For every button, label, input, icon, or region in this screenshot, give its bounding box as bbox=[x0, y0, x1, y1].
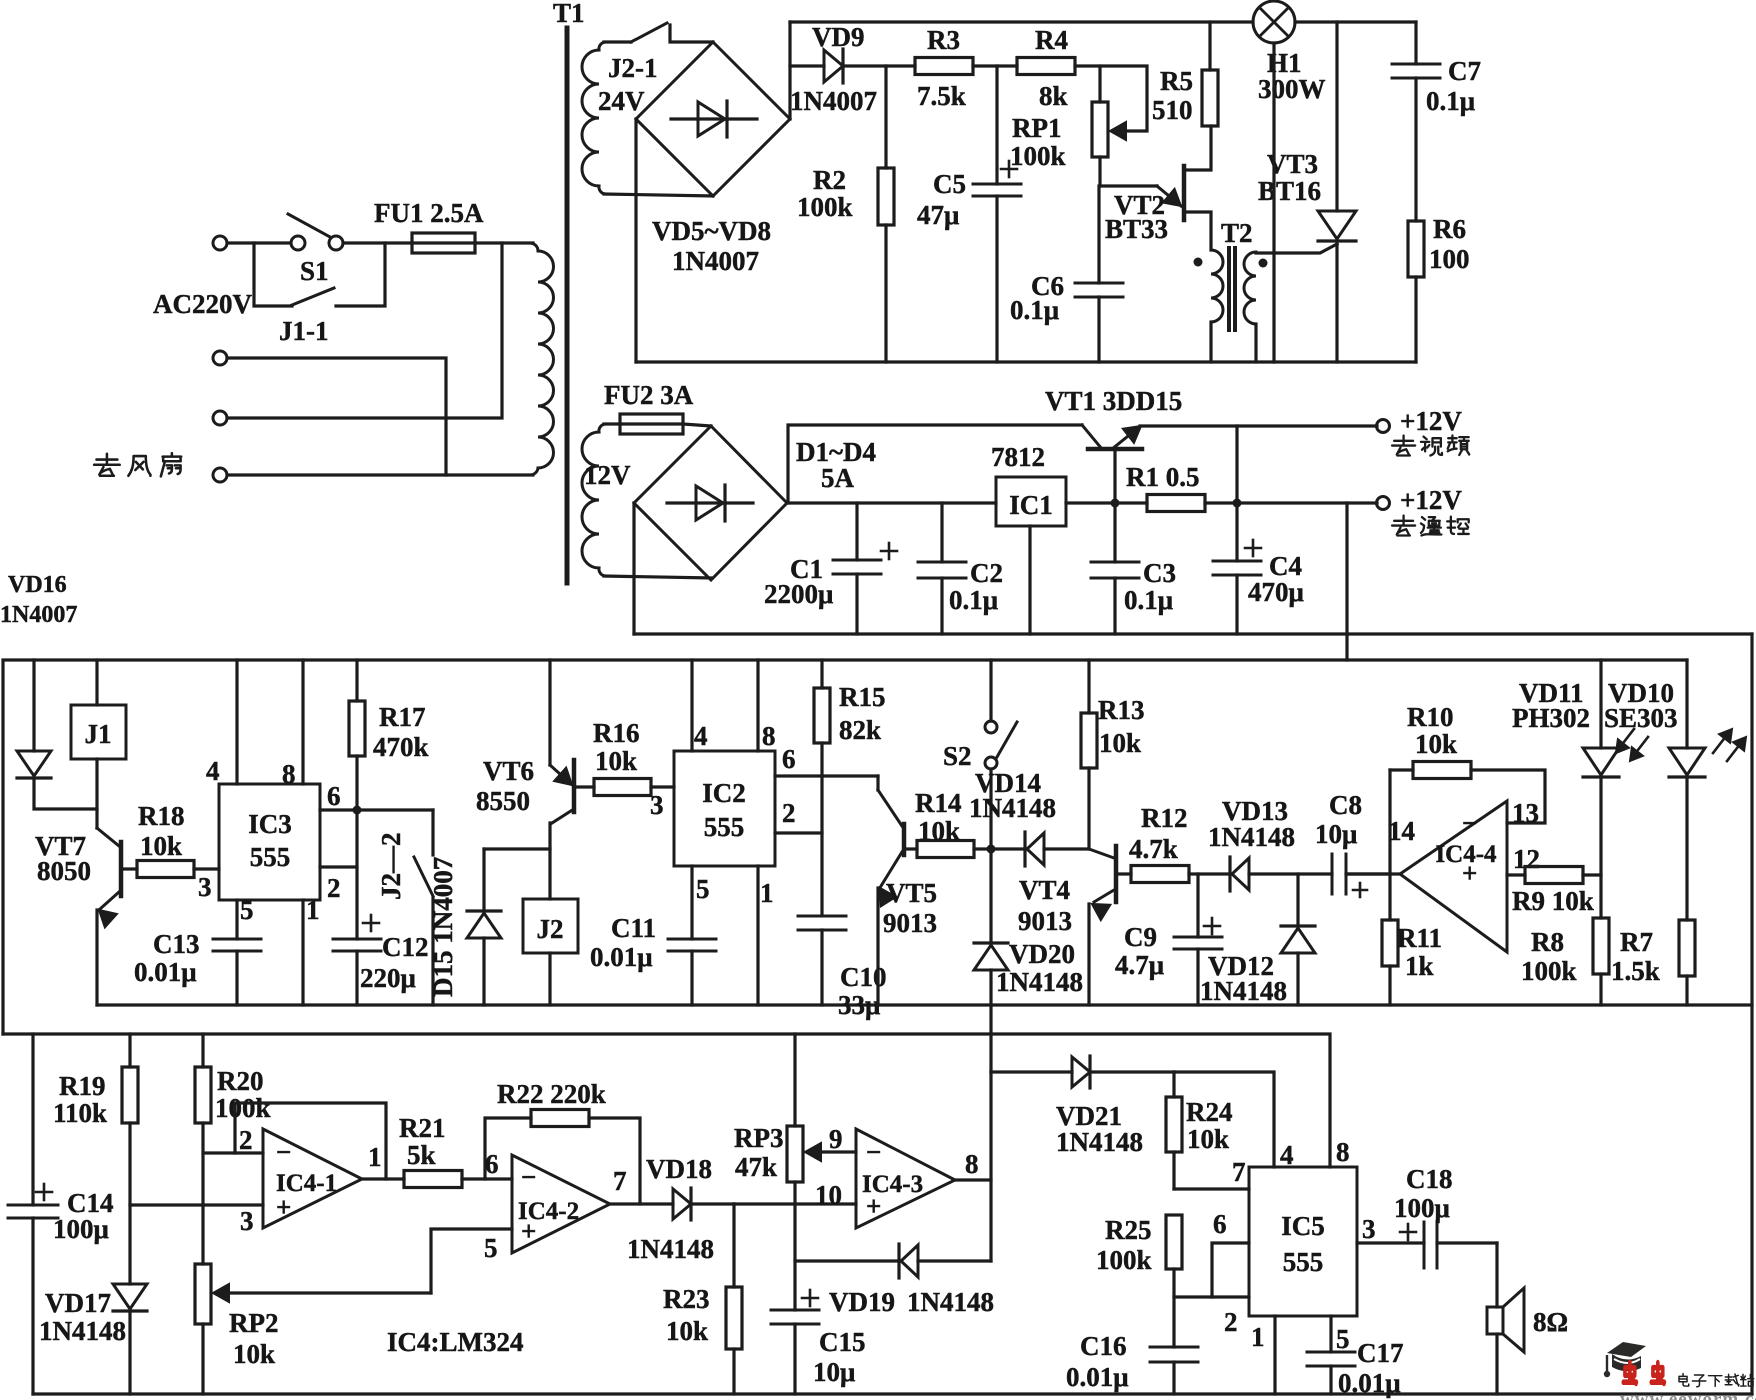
svg-text:R19: R19 bbox=[59, 1071, 106, 1101]
svg-text:T1: T1 bbox=[553, 0, 585, 28]
svg-text:R2: R2 bbox=[813, 165, 846, 195]
svg-text:R23: R23 bbox=[663, 1284, 710, 1314]
svg-text:FU1 2.5A: FU1 2.5A bbox=[374, 198, 484, 228]
svg-text:VD19: VD19 bbox=[829, 1287, 895, 1317]
svg-text:100μ: 100μ bbox=[53, 1214, 109, 1244]
svg-text:5A: 5A bbox=[821, 463, 855, 493]
svg-text:R25: R25 bbox=[1105, 1215, 1152, 1245]
svg-text:2: 2 bbox=[239, 1125, 253, 1155]
svg-text:510: 510 bbox=[1152, 95, 1193, 125]
svg-text:AC220V: AC220V bbox=[153, 289, 252, 319]
svg-text:1N4148: 1N4148 bbox=[969, 793, 1056, 823]
capacitor C17 bbox=[1307, 1351, 1355, 1354]
svg-text:3: 3 bbox=[650, 790, 664, 820]
svg-text:R20: R20 bbox=[217, 1066, 264, 1096]
svg-text:IC4:LM324: IC4:LM324 bbox=[387, 1327, 524, 1357]
wire bbox=[683, 424, 711, 426]
lamp H1 bbox=[1253, 1, 1295, 43]
relay J1 bbox=[95, 660, 98, 705]
svg-text:R4: R4 bbox=[1035, 25, 1068, 55]
svg-text:C8: C8 bbox=[1329, 790, 1362, 820]
svg-text:8: 8 bbox=[1336, 1137, 1350, 1167]
resistor R8 bbox=[1593, 918, 1609, 974]
svg-text:1N4007: 1N4007 bbox=[790, 86, 877, 116]
wire pin4 bbox=[1174, 1072, 1274, 1167]
svg-text:1: 1 bbox=[368, 1142, 382, 1172]
svg-text:R15: R15 bbox=[839, 682, 886, 712]
LED VD11 PH302 bbox=[1599, 660, 1602, 748]
wire pin8 bbox=[301, 660, 304, 784]
wire pin2 bbox=[203, 1151, 263, 1154]
capacitor C3 bbox=[1113, 503, 1116, 562]
svg-text:R8: R8 bbox=[1531, 927, 1564, 957]
svg-text:+: + bbox=[866, 1191, 881, 1221]
transformer T1 24V winding bbox=[599, 42, 606, 50]
fuse FU2 bbox=[604, 422, 620, 425]
svg-text:−: − bbox=[276, 1137, 291, 1167]
wire bottom rail bbox=[636, 360, 1416, 363]
wire bbox=[1028, 526, 1031, 634]
svg-text:C5: C5 bbox=[933, 169, 966, 199]
wire bbox=[1205, 501, 1377, 504]
op-amp IC4-3 bbox=[856, 1129, 955, 1228]
svg-text:R16: R16 bbox=[593, 718, 640, 748]
svg-text:RP3: RP3 bbox=[734, 1123, 784, 1153]
wire top rail bbox=[790, 20, 1253, 23]
wire bbox=[632, 503, 635, 634]
diode VD18 bbox=[673, 1189, 691, 1219]
svg-text:C18: C18 bbox=[1406, 1164, 1453, 1194]
svg-text:4: 4 bbox=[206, 756, 220, 786]
terminal fan 1 bbox=[213, 351, 227, 365]
svg-text:R3: R3 bbox=[927, 25, 960, 55]
svg-text:FU2 3A: FU2 3A bbox=[604, 380, 694, 410]
wire bbox=[734, 1202, 856, 1205]
capacitor C9 bbox=[1196, 874, 1199, 937]
capacitor C11 bbox=[668, 938, 716, 941]
terminal +12V video bbox=[1377, 420, 1390, 433]
diode VD19 bbox=[795, 1259, 899, 1262]
diode VD21 bbox=[991, 1070, 1072, 1073]
wire pin1 bbox=[756, 866, 759, 1005]
wire bbox=[343, 241, 412, 244]
svg-text:1N4007: 1N4007 bbox=[672, 246, 759, 276]
svg-text:3: 3 bbox=[240, 1206, 254, 1236]
svg-text:0.1μ: 0.1μ bbox=[1426, 86, 1475, 116]
resistor R16 bbox=[574, 785, 594, 788]
wire bbox=[227, 243, 502, 418]
resistor R17 bbox=[355, 660, 358, 701]
wire bbox=[1066, 501, 1147, 504]
wire pins 2 6 bbox=[1174, 1295, 1249, 1298]
svg-text:S1: S1 bbox=[300, 256, 329, 286]
diode VD17 bbox=[113, 1284, 147, 1309]
wire pin7 bbox=[1174, 1187, 1249, 1190]
svg-text:R13: R13 bbox=[1098, 695, 1145, 725]
svg-text:J2—2: J2—2 bbox=[376, 833, 406, 901]
svg-text:4: 4 bbox=[694, 721, 708, 751]
junction bbox=[1233, 499, 1242, 508]
wire bbox=[1347, 872, 1400, 875]
svg-text:IC3: IC3 bbox=[248, 809, 292, 839]
wire bbox=[788, 22, 791, 119]
watermark site bbox=[1679, 1374, 1754, 1387]
svg-text:0.01μ: 0.01μ bbox=[1066, 1362, 1129, 1392]
svg-text:C9: C9 bbox=[1124, 922, 1157, 952]
wire top rail bbox=[1295, 20, 1416, 23]
wire bbox=[845, 64, 915, 67]
junction bbox=[987, 845, 996, 854]
svg-text:3: 3 bbox=[198, 872, 212, 902]
svg-text:C13: C13 bbox=[153, 929, 200, 959]
terminal fan 3 bbox=[213, 468, 227, 482]
svg-text:470μ: 470μ bbox=[1248, 577, 1304, 607]
capacitor C4 bbox=[1235, 503, 1238, 561]
svg-text:220μ: 220μ bbox=[360, 963, 416, 993]
svg-text:1.5k: 1.5k bbox=[1611, 956, 1660, 986]
svg-text:8050: 8050 bbox=[37, 856, 91, 886]
svg-text:R1 0.5: R1 0.5 bbox=[1126, 462, 1200, 492]
svg-text:1N4148: 1N4148 bbox=[1208, 822, 1295, 852]
timer IC2 555 bbox=[674, 751, 775, 866]
wire pin3 bbox=[1357, 1241, 1424, 1244]
wire bbox=[634, 119, 637, 362]
svg-text:100μ: 100μ bbox=[1394, 1193, 1450, 1223]
LED VD10 SE303 bbox=[1685, 660, 1688, 748]
svg-text:0.1μ: 0.1μ bbox=[1010, 295, 1059, 325]
resistor R13 bbox=[1087, 660, 1090, 713]
op-amp IC4-2 bbox=[512, 1155, 610, 1253]
svg-text:−: − bbox=[1462, 808, 1477, 838]
svg-text:10μ: 10μ bbox=[813, 1357, 855, 1387]
relay contact J1-1 bbox=[292, 288, 334, 305]
regulator IC1 7812 bbox=[996, 477, 1066, 526]
transistor VT2 bbox=[1100, 184, 1157, 187]
svg-text:555: 555 bbox=[1283, 1247, 1324, 1277]
svg-text:1N4148: 1N4148 bbox=[907, 1287, 994, 1317]
wire bbox=[604, 194, 713, 196]
wire pin6 bbox=[775, 774, 878, 777]
capacitor C12 bbox=[355, 810, 358, 939]
junction bbox=[353, 806, 362, 815]
wire pin1 bbox=[301, 900, 304, 1005]
svg-text:−: − bbox=[866, 1137, 881, 1167]
svg-text:+: + bbox=[521, 1216, 536, 1246]
svg-text:2: 2 bbox=[1224, 1307, 1238, 1337]
resistor R21 bbox=[404, 1171, 462, 1188]
svg-text:300W: 300W bbox=[1258, 74, 1326, 104]
svg-text:VD9: VD9 bbox=[812, 22, 865, 52]
resistor R22 bbox=[531, 1110, 589, 1127]
svg-text:6: 6 bbox=[1213, 1209, 1227, 1239]
svg-text:8k: 8k bbox=[1039, 81, 1068, 111]
svg-text:1: 1 bbox=[1251, 1322, 1265, 1352]
bridge rectifier D1~D4 bbox=[634, 426, 787, 580]
svg-text:9013: 9013 bbox=[1018, 906, 1072, 936]
svg-text:8550: 8550 bbox=[476, 786, 530, 816]
diode VD9 bbox=[824, 50, 843, 82]
svg-text:100k: 100k bbox=[215, 1093, 271, 1123]
svg-text:C7: C7 bbox=[1448, 56, 1481, 86]
svg-text:R11: R11 bbox=[1397, 923, 1442, 953]
wire pin8 bbox=[756, 660, 759, 751]
fuse FU1 bbox=[412, 233, 475, 253]
svg-text:IC1: IC1 bbox=[1009, 490, 1053, 520]
svg-text:R6: R6 bbox=[1433, 214, 1466, 244]
svg-text:C17: C17 bbox=[1357, 1338, 1404, 1368]
transformer T2 bbox=[1211, 250, 1223, 322]
wire bbox=[475, 241, 533, 244]
transistor VT5 bbox=[876, 776, 879, 790]
wire pin6 bbox=[320, 808, 433, 811]
resistor R3 bbox=[915, 58, 973, 75]
svg-text:R21: R21 bbox=[399, 1113, 446, 1143]
svg-text:1N4148: 1N4148 bbox=[1200, 976, 1287, 1006]
transistor VT7 bbox=[119, 842, 124, 896]
resistor R7 bbox=[1679, 920, 1695, 976]
switch S2 bbox=[989, 660, 992, 721]
svg-text:82k: 82k bbox=[839, 715, 881, 745]
wire bbox=[1272, 43, 1275, 362]
watermark logo bbox=[1607, 1342, 1646, 1357]
transistor VT6 bbox=[548, 660, 551, 765]
wire pin4 bbox=[235, 660, 238, 784]
svg-text:+12V: +12V bbox=[1400, 406, 1462, 436]
svg-text:10k: 10k bbox=[918, 816, 960, 846]
svg-text:BT33: BT33 bbox=[1105, 214, 1168, 244]
svg-text:VT5: VT5 bbox=[886, 878, 937, 908]
terminal +12V remote bbox=[1377, 497, 1390, 510]
resistor R15 bbox=[820, 660, 823, 688]
svg-text:7.5k: 7.5k bbox=[917, 81, 966, 111]
svg-text:VD16: VD16 bbox=[8, 572, 67, 598]
wire pin2 bbox=[320, 865, 357, 868]
svg-text:VD17: VD17 bbox=[45, 1288, 111, 1318]
svg-text:7: 7 bbox=[1232, 1157, 1246, 1187]
svg-text:R5: R5 bbox=[1160, 66, 1193, 96]
svg-text:VD5~VD8: VD5~VD8 bbox=[652, 216, 771, 246]
svg-text:R17: R17 bbox=[379, 702, 426, 732]
svg-text:110k: 110k bbox=[53, 1098, 107, 1128]
capacitor C5 bbox=[995, 66, 998, 184]
svg-text:9: 9 bbox=[829, 1124, 843, 1154]
svg-text:7: 7 bbox=[613, 1166, 627, 1196]
diode D15 bbox=[484, 847, 550, 850]
svg-text:10k: 10k bbox=[1187, 1124, 1229, 1154]
capacitor C7 bbox=[1414, 22, 1417, 64]
wire bbox=[254, 243, 292, 306]
svg-text:J2: J2 bbox=[537, 914, 564, 944]
potentiometer RP3 bbox=[793, 1034, 796, 1126]
svg-text:10k: 10k bbox=[666, 1316, 708, 1346]
resistor R25 bbox=[1166, 1215, 1182, 1269]
wire pin5 bbox=[690, 866, 693, 939]
resistor R23 bbox=[732, 1204, 735, 1287]
wire pin4 bbox=[690, 660, 693, 751]
svg-text:2: 2 bbox=[782, 798, 796, 828]
wire bbox=[790, 64, 824, 67]
svg-text:5k: 5k bbox=[407, 1140, 436, 1170]
svg-text:C2: C2 bbox=[970, 558, 1003, 588]
svg-text:555: 555 bbox=[704, 812, 745, 842]
wire bbox=[973, 64, 1017, 67]
thyristor VT3 bbox=[1335, 22, 1338, 211]
svg-text:PH302: PH302 bbox=[1512, 703, 1590, 733]
transformer T1 primary winding bbox=[530, 243, 538, 251]
svg-text:J2-1: J2-1 bbox=[608, 53, 658, 83]
svg-text:IC2: IC2 bbox=[702, 778, 746, 808]
diode VD20 bbox=[989, 849, 992, 943]
svg-text:C16: C16 bbox=[1080, 1331, 1127, 1361]
svg-text:0.01μ: 0.01μ bbox=[590, 942, 653, 972]
svg-text:12V: 12V bbox=[584, 460, 631, 490]
wire feedback bbox=[235, 1103, 386, 1179]
resistor R19 bbox=[128, 1034, 131, 1067]
wire bbox=[227, 473, 533, 476]
svg-text:1N4148: 1N4148 bbox=[996, 967, 1083, 997]
svg-text:1N4148: 1N4148 bbox=[39, 1316, 126, 1346]
relay contact J2-2 bbox=[431, 810, 434, 855]
terminal AC input L bbox=[213, 236, 227, 250]
svg-text:0.01μ: 0.01μ bbox=[134, 957, 197, 987]
svg-text:BT16: BT16 bbox=[1258, 176, 1321, 206]
svg-text:47μ: 47μ bbox=[917, 200, 959, 230]
wire bbox=[227, 358, 446, 475]
svg-text:7812: 7812 bbox=[991, 442, 1045, 472]
resistor R14 bbox=[904, 847, 917, 850]
resistor R6 bbox=[1408, 221, 1424, 277]
svg-text:J1-1: J1-1 bbox=[279, 316, 329, 346]
potentiometer RP1 bbox=[1098, 66, 1101, 102]
resistor R18 bbox=[121, 867, 137, 870]
svg-text:1N4007: 1N4007 bbox=[0, 602, 77, 628]
svg-text:100k: 100k bbox=[797, 192, 853, 222]
wire +12V rail bbox=[3, 660, 1687, 1034]
wire bbox=[1235, 426, 1238, 503]
capacitor C13 bbox=[213, 938, 261, 941]
wire bbox=[1140, 424, 1377, 427]
wire bottom rail bbox=[33, 1392, 1752, 1395]
wire bbox=[1075, 66, 1147, 131]
svg-text:0.1μ: 0.1μ bbox=[1124, 585, 1173, 615]
svg-text:SE303: SE303 bbox=[1604, 703, 1678, 733]
svg-text:10μ: 10μ bbox=[1315, 819, 1357, 849]
wire bbox=[787, 501, 996, 504]
svg-text:10k: 10k bbox=[1099, 728, 1141, 758]
svg-text:VT4: VT4 bbox=[1019, 875, 1070, 905]
wire bbox=[788, 425, 1082, 503]
svg-text:47k: 47k bbox=[735, 1152, 777, 1182]
resistor R1 bbox=[1147, 495, 1205, 512]
op-amp IC4-1 bbox=[263, 1129, 362, 1228]
wire pin1 bbox=[1273, 1316, 1276, 1394]
wire bbox=[1345, 503, 1348, 660]
svg-text:R9 10k: R9 10k bbox=[1512, 886, 1594, 916]
svg-text:100: 100 bbox=[1429, 244, 1470, 274]
svg-text:100k: 100k bbox=[1521, 956, 1577, 986]
svg-text:1N4148: 1N4148 bbox=[627, 1234, 714, 1264]
svg-text:1k: 1k bbox=[1405, 951, 1434, 981]
svg-text:24V: 24V bbox=[598, 86, 645, 116]
svg-text:+12V: +12V bbox=[1400, 485, 1462, 515]
svg-text:0.01μ: 0.01μ bbox=[1338, 1368, 1401, 1398]
wire pin8 bbox=[955, 1180, 991, 1261]
svg-text:R18: R18 bbox=[138, 801, 185, 831]
timer IC5 555 bbox=[1249, 1167, 1357, 1316]
resistor R11 bbox=[1388, 874, 1391, 920]
svg-text:3: 3 bbox=[1362, 1214, 1376, 1244]
wire bbox=[989, 1072, 992, 1180]
terminal fan 2 bbox=[213, 411, 227, 425]
svg-text:10: 10 bbox=[815, 1180, 842, 1210]
capacitor C10 bbox=[798, 915, 846, 918]
svg-text:RP1: RP1 bbox=[1012, 113, 1062, 143]
wire ground rail bbox=[634, 632, 1752, 635]
capacitor C8 bbox=[1331, 854, 1334, 894]
svg-text:IC5: IC5 bbox=[1281, 1211, 1325, 1241]
transformer T1 12V winding bbox=[599, 424, 606, 432]
capacitor C6 bbox=[1097, 186, 1100, 283]
svg-text:RP2: RP2 bbox=[229, 1308, 279, 1338]
capacitor C14 bbox=[31, 1034, 34, 1205]
svg-text:R24: R24 bbox=[1186, 1097, 1233, 1127]
svg-text:10k: 10k bbox=[595, 746, 637, 776]
svg-text:R14: R14 bbox=[915, 788, 962, 818]
svg-text:C15: C15 bbox=[819, 1327, 866, 1357]
wire ground bus bbox=[97, 1003, 1752, 1006]
svg-text:VD20: VD20 bbox=[1009, 939, 1075, 969]
svg-text:D15 1N4007: D15 1N4007 bbox=[428, 857, 458, 997]
diode VD13 bbox=[1228, 857, 1231, 891]
wire feedback R22 bbox=[485, 1118, 531, 1179]
relay contact J2-1 bbox=[604, 40, 631, 43]
svg-text:VT1 3DD15: VT1 3DD15 bbox=[1045, 386, 1182, 416]
svg-text:33μ: 33μ bbox=[838, 990, 880, 1020]
watermark text bbox=[1623, 1363, 1636, 1384]
svg-text:C12: C12 bbox=[382, 932, 429, 962]
svg-text:R10: R10 bbox=[1407, 702, 1454, 732]
svg-text:1: 1 bbox=[306, 895, 320, 925]
svg-text:T2: T2 bbox=[1221, 218, 1253, 248]
svg-text:5: 5 bbox=[1336, 1324, 1350, 1354]
diode VD12 bbox=[1296, 874, 1299, 926]
capacitor C2 bbox=[940, 503, 943, 562]
svg-text:+: + bbox=[1462, 858, 1477, 888]
resistor R10 bbox=[1388, 770, 1391, 874]
resistor R24 bbox=[1172, 1072, 1175, 1097]
transformer T1 core bbox=[565, 28, 570, 583]
svg-text:C11: C11 bbox=[611, 913, 656, 943]
svg-text:R12: R12 bbox=[1141, 803, 1188, 833]
wire bbox=[604, 576, 711, 578]
svg-text:−: − bbox=[521, 1162, 536, 1192]
resistor R5 bbox=[1208, 22, 1211, 70]
relay J2 bbox=[523, 899, 578, 953]
svg-text:8: 8 bbox=[762, 721, 776, 751]
transistor VT1 bbox=[1082, 425, 1102, 449]
wire pin5 bbox=[1329, 1316, 1332, 1352]
wire bbox=[336, 243, 385, 306]
svg-text:6: 6 bbox=[485, 1149, 499, 1179]
svg-text:4.7μ: 4.7μ bbox=[1115, 950, 1164, 980]
svg-text:470k: 470k bbox=[373, 732, 429, 762]
svg-text:13: 13 bbox=[1512, 798, 1539, 828]
wire pin5 bbox=[235, 900, 238, 939]
svg-text:9013: 9013 bbox=[883, 908, 937, 938]
potentiometer RP2 bbox=[195, 1264, 211, 1324]
resistor R4 bbox=[1017, 58, 1075, 75]
svg-text:J1: J1 bbox=[85, 719, 112, 749]
